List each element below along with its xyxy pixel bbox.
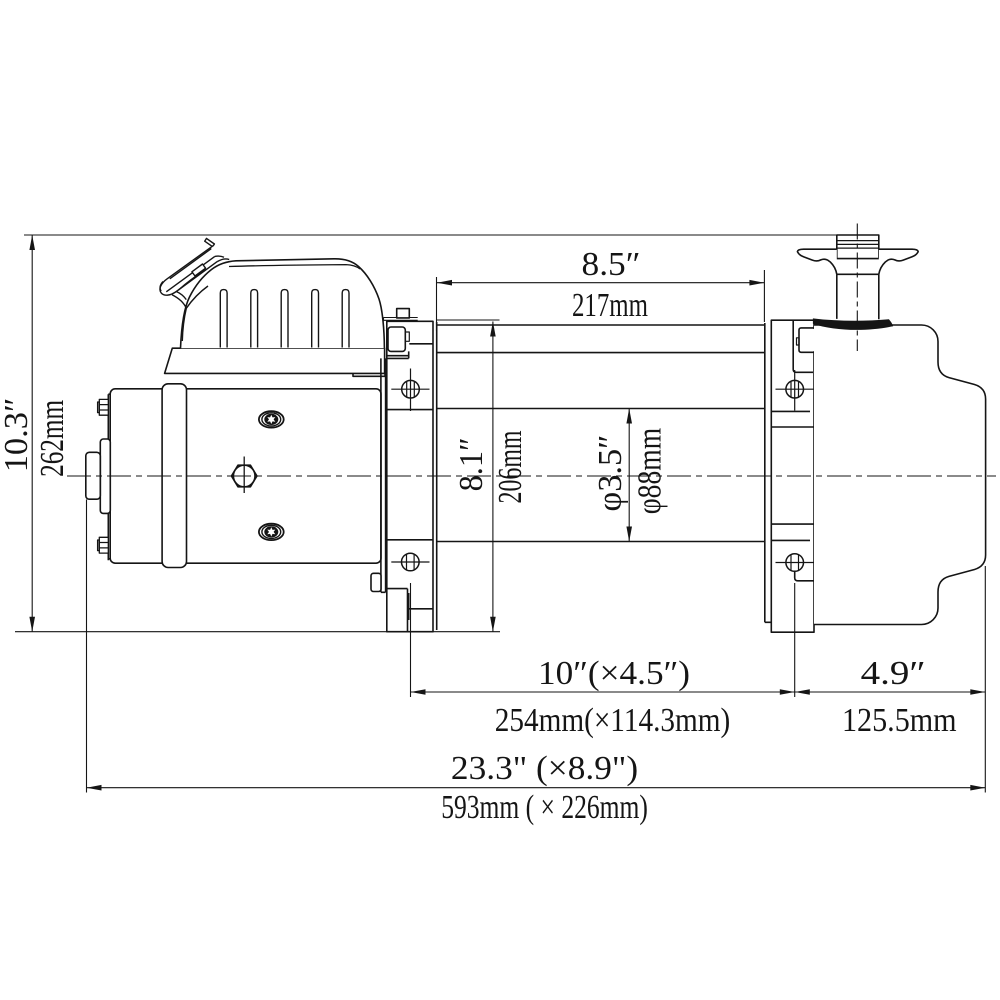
left plate side tab xyxy=(371,573,381,591)
dim ext 254 left xyxy=(410,583,412,697)
dim line dia88 xyxy=(628,409,630,542)
dim ext 593 left xyxy=(86,500,88,793)
svg-text:254mm(×114.3mm): 254mm(×114.3mm) xyxy=(495,702,731,739)
svg-text:4.9″: 4.9″ xyxy=(861,655,926,692)
motor body xyxy=(110,389,381,563)
svg-text:φ3.5″: φ3.5″ xyxy=(592,435,629,512)
gear housing xyxy=(814,325,986,625)
dim ext 8.1 top xyxy=(437,319,500,321)
svg-text:10″(×4.5″): 10″(×4.5″) xyxy=(538,655,690,692)
svg-text:262mm: 262mm xyxy=(34,400,71,477)
motor screw star top xyxy=(259,411,284,427)
left plate step lines xyxy=(387,344,433,359)
svg-text:206mm: 206mm xyxy=(492,431,529,504)
motor shaft boss xyxy=(86,452,101,499)
right plate dividers xyxy=(771,411,814,540)
motor band ring xyxy=(162,384,186,568)
svg-text:23.3" (×8.9"): 23.3" (×8.9") xyxy=(451,750,638,787)
clutch lever wing left xyxy=(797,249,836,274)
centerline main horizontal xyxy=(67,475,996,477)
drum tie bar xyxy=(437,325,765,353)
motor center hex plug xyxy=(232,457,257,494)
right plate bolt top xyxy=(776,370,815,411)
right plate upper step xyxy=(793,320,813,372)
svg-text:8.5″: 8.5″ xyxy=(582,246,641,283)
motor cap flange line xyxy=(108,394,110,560)
dim ext bottom xyxy=(15,631,500,633)
motor screw star bottom xyxy=(259,524,284,540)
left mount plate xyxy=(387,321,433,631)
control box dome xyxy=(181,259,385,348)
left plate foot xyxy=(387,589,433,631)
dim line 217 xyxy=(437,282,764,284)
control box dome ridge xyxy=(229,265,360,269)
dim line 8.1 xyxy=(492,322,494,632)
dim ext 254 right xyxy=(794,583,796,697)
housing slot crescent xyxy=(813,318,893,329)
svg-text:593mm ( × 226mm): 593mm ( × 226mm) xyxy=(441,789,648,826)
dim line 10.3 xyxy=(31,235,33,632)
svg-text:217mm: 217mm xyxy=(572,287,648,324)
dim line 254 and 125.5 xyxy=(411,691,986,693)
right mount plate xyxy=(771,320,814,632)
clutch handle loop xyxy=(160,238,229,341)
dim line 593 xyxy=(87,787,986,789)
dim ext 217 right xyxy=(763,270,765,322)
left plate clamp block xyxy=(388,327,405,351)
left plate top tab xyxy=(397,309,410,318)
motor bolt nut bottom xyxy=(98,537,109,553)
dim ext 217 left xyxy=(436,277,438,331)
left plate bolt bottom xyxy=(391,553,429,571)
motor end cap xyxy=(100,439,110,513)
clutch lever knurl block xyxy=(837,235,879,259)
left plate rear flange edge xyxy=(436,322,438,630)
svg-text:10.3″: 10.3″ xyxy=(0,398,35,473)
right plate bolt bottom xyxy=(776,554,815,572)
control box fins xyxy=(220,290,349,348)
left plate top cap xyxy=(384,318,418,322)
left plate divider lower xyxy=(387,539,433,541)
left plate bolt top xyxy=(391,369,429,412)
right plate side strip xyxy=(765,323,772,622)
right plate clamp block xyxy=(799,328,815,352)
clutch lever centerline xyxy=(856,224,858,352)
dim ext top xyxy=(24,234,837,236)
motor bolt nut top xyxy=(98,399,109,415)
drum barrel xyxy=(437,409,765,542)
svg-text:125.5mm: 125.5mm xyxy=(842,702,957,739)
svg-text:8.1″: 8.1″ xyxy=(453,437,490,491)
left plate side strip xyxy=(381,358,386,592)
control box base lip xyxy=(353,373,385,376)
control box base plate xyxy=(165,348,385,373)
right plate notch xyxy=(795,571,814,581)
clutch lever shaft xyxy=(837,274,879,319)
left plate divider upper xyxy=(387,409,433,411)
clutch lever wing right xyxy=(879,249,918,274)
dim ext 593 right xyxy=(984,566,986,793)
svg-text:φ88mm: φ88mm xyxy=(632,428,669,515)
